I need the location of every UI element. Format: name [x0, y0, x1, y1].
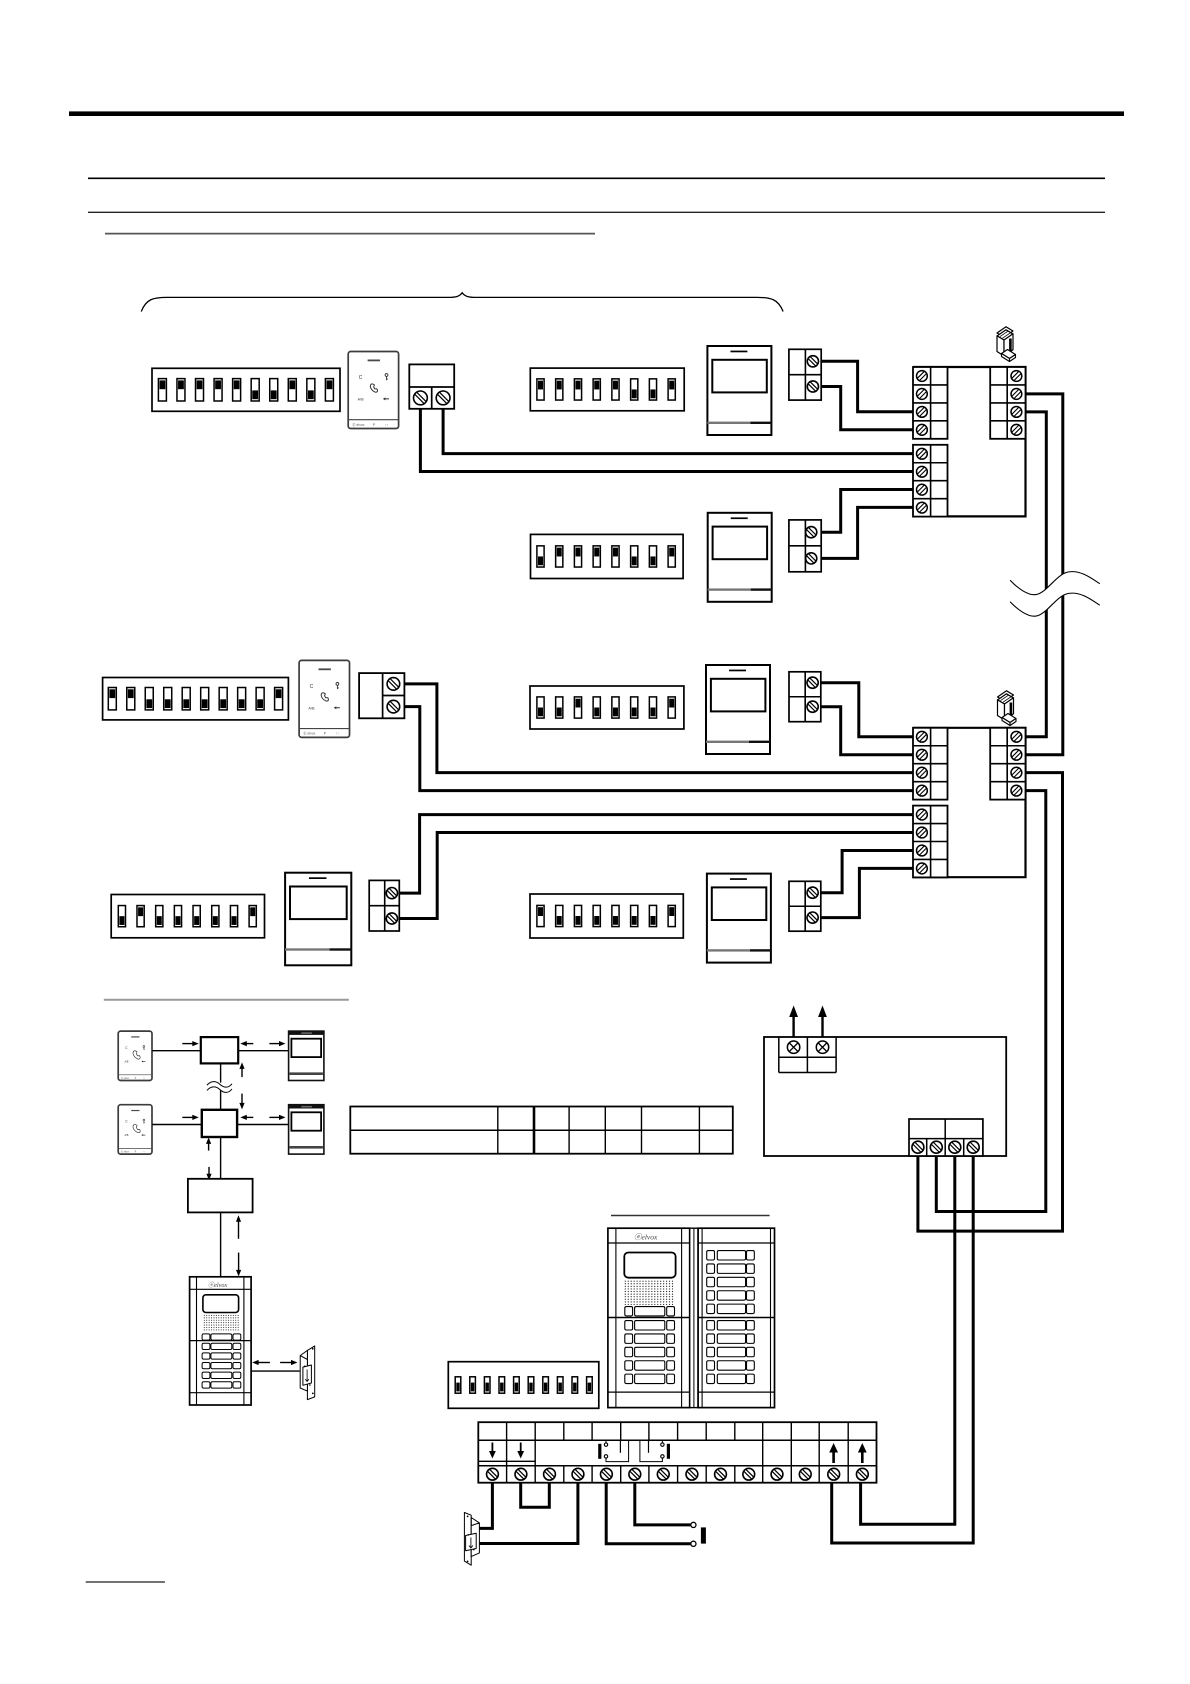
trunk wire distributor-panel — [220, 1212, 222, 1276]
wire J2-monitorB — [237, 1124, 289, 1126]
video entrance panel module 2 — [698, 1228, 774, 1407]
wire amplifier1 R3 down riser — [1026, 412, 1047, 737]
svg-text:C: C — [310, 684, 314, 690]
strip push button symbol left — [598, 1444, 601, 1459]
monitor 3 terminal block — [789, 672, 821, 722]
wiring table — [350, 1107, 733, 1154]
wire strip4 to lock strike — [478, 1483, 578, 1544]
svg-text:Ⓔ elvox: Ⓔ elvox — [352, 422, 365, 427]
wire monitor1 to amplifier A4 — [821, 387, 913, 430]
audio entrance panel — [190, 1277, 252, 1405]
trunk wire J2-distributor — [220, 1137, 222, 1179]
keypad 1 terminal block — [409, 364, 454, 408]
wire monitor2 to amplifier B4 — [821, 507, 913, 558]
svg-text:↑↑: ↑↑ — [385, 423, 389, 427]
arrow monitorA to J1 — [245, 1043, 253, 1045]
header rule 2 — [88, 177, 1105, 179]
wire amplifier1 R2 down riser — [1026, 394, 1063, 755]
jumper plug 1 — [997, 327, 1013, 356]
strip down arrow 2 — [520, 1443, 522, 1453]
amplifier 1 connector body — [913, 367, 1026, 516]
svg-text:A/B: A/B — [308, 706, 315, 710]
power supply unit — [764, 1037, 1006, 1156]
top curly brace — [141, 293, 783, 312]
svg-text:Ⓔ elvox: Ⓔ elvox — [303, 731, 316, 736]
mini keypad B — [118, 1105, 152, 1154]
monitor 5 — [707, 874, 771, 963]
door entry keypad unit 1 — [348, 352, 398, 429]
monitor 2 — [708, 513, 772, 602]
svg-text:A/B: A/B — [124, 1134, 128, 1137]
power supply mains arrow 1 — [792, 1015, 794, 1037]
external push button — [691, 1522, 696, 1527]
section title underline — [105, 233, 595, 235]
svg-text:ⓔelvox: ⓔelvox — [208, 1281, 227, 1289]
arrow panel to strike — [280, 1362, 292, 1364]
distributor box — [188, 1179, 253, 1213]
svg-text:↑↑: ↑↑ — [143, 1077, 145, 1080]
video entrance panel module 1 — [608, 1228, 690, 1407]
page header thick rule — [69, 111, 1124, 116]
trunk wire J1-J2 — [220, 1063, 222, 1109]
wire psu terminal 4 to strip 13 — [832, 1156, 974, 1543]
mini monitor B — [289, 1105, 324, 1154]
monitor 1 — [707, 346, 771, 435]
svg-text:↑↑: ↑↑ — [143, 1150, 145, 1153]
wire monitor1 to amplifier A3 — [821, 361, 913, 412]
wire monitor3 to amplifier2 A1 — [821, 683, 913, 737]
trunk cable break — [206, 1083, 233, 1090]
wire psu terminal 3 to strip 14 — [861, 1156, 955, 1524]
dip switch S8 (10-way) — [448, 1362, 599, 1409]
arrow down beside trunk — [241, 1094, 243, 1105]
power supply output terminal block — [909, 1119, 983, 1156]
wire keypad1 to amplifier B1 — [443, 409, 913, 454]
wire amplifier2 R3 to power supply — [918, 773, 1063, 1231]
svg-text:A/B: A/B — [124, 1060, 128, 1063]
header rule 3 — [88, 211, 1105, 213]
footnote rule — [86, 1581, 165, 1583]
arrow keypadA to J1 — [182, 1043, 194, 1045]
junction box J1 — [201, 1037, 238, 1063]
dip switch S4 (10-way) — [103, 678, 289, 720]
arrow up beside trunk — [241, 1067, 243, 1077]
svg-text:A/B: A/B — [358, 397, 365, 401]
dip switch S6 (8-way) — [111, 895, 264, 938]
wire monitor4 to amplifier2 B1 — [399, 815, 913, 894]
keypad 2 terminal block — [359, 673, 404, 718]
section 3 divider rule — [104, 999, 349, 1001]
panel section rule — [611, 1215, 770, 1217]
panel joining strip — [690, 1228, 698, 1407]
arrow monitorB to J2 — [245, 1116, 253, 1118]
strip up arrow 14 — [861, 1452, 864, 1463]
amplifier 1 connector right terminal strip — [990, 367, 1025, 439]
dip switch S3 (8-way) — [531, 534, 684, 578]
monitor 1 terminal block — [789, 349, 821, 400]
arrow down to distributor — [208, 1167, 210, 1175]
wire keypad2 to amplifier2 A4 — [404, 707, 913, 791]
riser cable break — [1010, 572, 1100, 617]
wire monitor4 to amplifier2 B2 — [399, 833, 913, 919]
monitor 4 — [285, 873, 351, 966]
strip push button symbol right — [667, 1444, 670, 1459]
wire strip1 to lock strike — [477, 1483, 493, 1529]
wire strip2 to strip3 jumper — [521, 1483, 550, 1508]
junction box J2 — [202, 1110, 237, 1137]
mini keypad A — [118, 1031, 152, 1080]
monitor 5 terminal block — [789, 881, 821, 931]
wire strip5 to push button — [606, 1483, 691, 1544]
arrow strike to panel — [257, 1362, 270, 1364]
strip down arrow 1 — [491, 1443, 493, 1453]
strip up arrow 13 — [832, 1452, 835, 1463]
arrow keypadB to J2 — [182, 1116, 194, 1118]
svg-text:C: C — [359, 375, 363, 381]
amplifier 2 connector right terminal strip — [990, 728, 1025, 800]
wire keypad1 to amplifier B2 — [420, 409, 913, 472]
amplifier 2 connector left terminal strip B — [913, 806, 948, 878]
dip switch S1 (10-way) — [152, 368, 340, 411]
mini monitor A — [289, 1031, 324, 1080]
wire strip6 to push button — [635, 1483, 691, 1525]
wire monitor3 to amplifier2 A2 — [821, 707, 913, 755]
power supply mains arrow 2 — [821, 1015, 823, 1037]
jumper plug 2 — [998, 691, 1014, 720]
arrow down into entrance panel — [238, 1253, 240, 1272]
arrow up into distributor — [238, 1220, 240, 1239]
arrow up into J2 — [208, 1142, 210, 1150]
monitor 3 — [706, 665, 770, 754]
monitor 4 terminal block — [369, 880, 399, 931]
wire monitor5 to amplifier2 B4 — [821, 868, 913, 917]
dip switch S7 (8-way) — [530, 894, 683, 938]
monitor 2 terminal block — [789, 520, 821, 572]
svg-text:ⓔelvox: ⓔelvox — [634, 1233, 658, 1242]
entrance panel terminal strip — [478, 1422, 876, 1483]
arrow J1 to monitorA — [269, 1043, 280, 1045]
wire amplifier2 R4 to power supply — [936, 791, 1046, 1212]
amplifier 1 connector left terminal strip A — [913, 367, 948, 439]
amplifier 1 connector left terminal strip B — [913, 445, 948, 517]
svg-text:↑↑: ↑↑ — [336, 732, 340, 736]
wire keypadA-J1 — [152, 1050, 201, 1052]
amplifier 2 connector left terminal strip A — [913, 728, 948, 800]
dip switch S5 (8-way) — [530, 686, 684, 729]
amplifier 2 connector body — [913, 728, 1026, 877]
door entry keypad unit 2 — [299, 660, 349, 737]
wire keypad2 to amplifier2 A3 — [404, 684, 913, 773]
wire panel to strike 1 — [251, 1370, 300, 1372]
arrow J2 to monitorB — [269, 1116, 280, 1118]
wire monitor2 to amplifier B3 — [821, 490, 913, 533]
door lock strike 2 — [464, 1513, 479, 1566]
dip switch S2 (8-way) — [530, 368, 684, 411]
wire monitor5 to amplifier2 B3 — [821, 850, 913, 892]
wire J1-monitorA — [238, 1050, 288, 1052]
door lock strike 1 — [300, 1346, 315, 1400]
wire keypadB-J2 — [152, 1124, 202, 1126]
